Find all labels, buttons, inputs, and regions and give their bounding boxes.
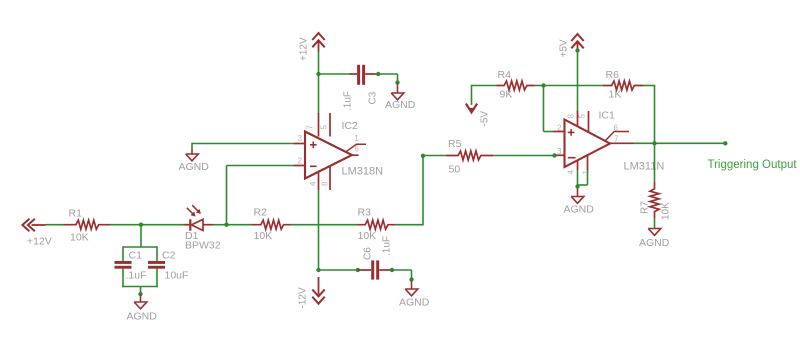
svg-text:IC2: IC2 xyxy=(342,120,359,132)
pin 2 (IC1) xyxy=(557,124,562,133)
svg-text:8: 8 xyxy=(321,181,330,186)
svg-text:5: 5 xyxy=(578,114,587,119)
value BPW32 (D1) xyxy=(185,240,221,252)
label C6 xyxy=(363,247,374,260)
ground AGND (IC2 +in) xyxy=(186,150,199,161)
svg-text:Triggering Output: Triggering Output xyxy=(708,159,798,171)
value 9K (R4) xyxy=(500,89,513,101)
wire xyxy=(634,142,725,144)
wire xyxy=(392,270,412,280)
pin 8 (IC1) xyxy=(567,114,576,119)
svg-text:2: 2 xyxy=(298,157,303,166)
svg-text:10uF: 10uF xyxy=(165,270,189,282)
wire xyxy=(577,51,579,112)
value 10K (R2) xyxy=(254,230,273,242)
svg-text:AGND: AGND xyxy=(127,311,158,323)
resistor R3 xyxy=(358,220,396,229)
value LM311N (IC1) xyxy=(624,161,665,173)
label AGND xyxy=(385,99,416,111)
pin 7 (IC1) xyxy=(614,135,619,144)
value .1uF (C6) xyxy=(382,236,393,256)
wire xyxy=(213,224,227,226)
junction node A xyxy=(139,223,143,227)
svg-text:R3: R3 xyxy=(358,207,372,219)
svg-text:LM318N: LM318N xyxy=(342,166,384,178)
capacitor C3 xyxy=(349,65,377,85)
resistor R4 xyxy=(497,81,535,90)
svg-text:1: 1 xyxy=(582,170,591,175)
ground AGND (IC1) xyxy=(571,189,584,204)
junction node B xyxy=(224,223,228,227)
wire xyxy=(423,155,446,157)
svg-text:8: 8 xyxy=(567,114,576,119)
port +12V input xyxy=(22,219,45,231)
capacitor C2 xyxy=(148,261,165,269)
svg-text:3: 3 xyxy=(557,147,562,156)
value LM318N (IC2) xyxy=(342,166,384,178)
wire xyxy=(319,269,358,271)
pin 1 (IC2) xyxy=(354,134,359,143)
svg-text:10K: 10K xyxy=(358,230,377,242)
label AGND xyxy=(179,161,210,173)
svg-text:IC1: IC1 xyxy=(599,110,616,122)
wire xyxy=(291,224,358,226)
label C2 xyxy=(162,250,176,262)
wire xyxy=(654,218,656,229)
wire xyxy=(396,156,423,226)
svg-text:R2: R2 xyxy=(254,207,268,219)
pin 3 (IC1) xyxy=(557,147,562,156)
op-amp IC2 LM318N xyxy=(294,113,367,190)
ground AGND (R7) xyxy=(648,229,661,236)
junction node C xyxy=(316,268,320,272)
node Triggering Output endpoint xyxy=(723,141,727,145)
pin 8 (IC2) xyxy=(321,181,330,186)
wire xyxy=(643,85,655,144)
pin 5 (IC2) xyxy=(320,125,329,130)
svg-text:6: 6 xyxy=(355,145,360,154)
supply +12V xyxy=(312,33,324,52)
svg-text:C3: C3 xyxy=(368,91,379,104)
svg-text:1: 1 xyxy=(354,134,359,143)
wire xyxy=(318,51,320,114)
svg-text:C1: C1 xyxy=(129,250,143,262)
value 50 (R5) xyxy=(449,164,461,176)
svg-text:7: 7 xyxy=(614,135,619,144)
svg-text:R6: R6 xyxy=(606,69,620,81)
supply -12V xyxy=(312,277,324,304)
label D1 xyxy=(185,230,199,242)
wire xyxy=(654,143,656,182)
svg-text:R5: R5 xyxy=(448,138,462,150)
svg-text:+12V: +12V xyxy=(299,37,310,61)
value 1K (R6) xyxy=(609,89,622,101)
label AGND xyxy=(639,237,670,249)
wire xyxy=(123,246,157,261)
pin 2 (IC2) xyxy=(298,157,303,166)
junction xyxy=(575,48,579,52)
junction node D xyxy=(541,83,545,87)
wire xyxy=(140,225,142,247)
wire xyxy=(318,190,320,270)
resistor R5 xyxy=(446,151,493,160)
svg-text:AGND: AGND xyxy=(564,204,595,216)
svg-text:5: 5 xyxy=(320,125,329,130)
label IC2 xyxy=(342,120,359,132)
svg-text:50: 50 xyxy=(449,164,461,176)
wire xyxy=(319,73,349,75)
wire xyxy=(544,86,554,132)
svg-text:AGND: AGND xyxy=(399,297,430,309)
wire xyxy=(192,143,294,150)
pin 4 (IC1) xyxy=(567,170,576,175)
label R4 xyxy=(498,69,512,81)
diode D1 (photodiode) xyxy=(184,205,214,231)
svg-text:R7: R7 xyxy=(640,201,651,214)
wire xyxy=(46,224,64,226)
wire xyxy=(122,269,158,295)
label IC1 xyxy=(599,110,616,122)
svg-text:4: 4 xyxy=(309,181,318,186)
pin 4 (IC2) xyxy=(309,181,318,186)
label AGND xyxy=(127,311,158,323)
svg-text:BPW32: BPW32 xyxy=(185,240,221,252)
junction xyxy=(376,72,380,76)
svg-text:10K: 10K xyxy=(70,232,89,244)
capacitor C6 xyxy=(358,260,391,279)
resistor R1 xyxy=(64,220,111,229)
label R7 xyxy=(640,201,651,214)
junction node E xyxy=(421,154,425,158)
svg-text:3: 3 xyxy=(298,134,303,143)
ground AGND (C3) xyxy=(391,84,404,100)
value .1uF (C1) xyxy=(126,270,147,282)
svg-text:1K: 1K xyxy=(609,89,622,101)
label +12V (input port) xyxy=(27,236,52,248)
svg-text:.1uF: .1uF xyxy=(382,236,393,256)
junction xyxy=(409,277,413,281)
svg-text:7: 7 xyxy=(306,125,315,130)
label R5 xyxy=(448,138,462,150)
label R3 xyxy=(358,207,372,219)
pin 3 (IC2) xyxy=(298,134,303,143)
wire xyxy=(577,170,588,189)
svg-text:+5V: +5V xyxy=(559,39,570,57)
supply -5V xyxy=(466,104,477,113)
wire xyxy=(472,85,497,105)
label -12V xyxy=(298,287,309,308)
svg-text:C2: C2 xyxy=(162,250,176,262)
label C3 xyxy=(368,91,379,104)
junction node F xyxy=(652,141,656,145)
wire xyxy=(227,224,252,226)
wire xyxy=(227,166,294,225)
junction xyxy=(390,268,394,272)
svg-text:10K: 10K xyxy=(661,202,672,220)
svg-text:.1uF: .1uF xyxy=(126,270,147,282)
value 10K (R3) xyxy=(358,230,377,242)
label R1 xyxy=(69,208,83,220)
value 10uF (C2) xyxy=(165,270,189,282)
comparator IC1 LM311N xyxy=(554,111,635,170)
label -5V xyxy=(480,111,491,127)
svg-text:AGND: AGND xyxy=(179,161,210,173)
svg-text:R4: R4 xyxy=(498,69,512,81)
resistor R7 xyxy=(650,182,659,218)
resistor R2 xyxy=(252,220,292,229)
svg-text:10K: 10K xyxy=(254,230,273,242)
label Triggering Output xyxy=(708,159,798,171)
junction xyxy=(356,268,360,272)
pin 5 (IC1) xyxy=(578,114,587,119)
svg-text:-12V: -12V xyxy=(298,287,309,308)
pin 6 (IC2) xyxy=(355,145,360,154)
svg-text:4: 4 xyxy=(567,170,576,175)
ground AGND (C1 C2) xyxy=(134,295,147,309)
wire xyxy=(535,85,544,87)
pin 7 (IC2) xyxy=(306,125,315,130)
wire xyxy=(110,224,141,226)
supply +5V xyxy=(571,34,583,51)
svg-text:R1: R1 xyxy=(69,208,83,220)
svg-text:-5V: -5V xyxy=(480,111,491,127)
svg-text:C6: C6 xyxy=(363,247,374,260)
label +5V xyxy=(559,39,570,57)
wire xyxy=(493,155,556,157)
resistor R6 xyxy=(603,81,643,90)
label AGND xyxy=(564,204,595,216)
svg-text:9K: 9K xyxy=(500,89,513,101)
svg-text:AGND: AGND xyxy=(639,237,670,249)
ground AGND (C6) xyxy=(405,281,418,296)
capacitor C1 xyxy=(115,261,132,269)
junction xyxy=(316,72,320,76)
svg-text:.1uF: .1uF xyxy=(343,91,354,111)
value 10K (R7) xyxy=(661,202,672,220)
junction xyxy=(552,153,556,157)
label R6 xyxy=(606,69,620,81)
junction xyxy=(575,184,579,188)
value 10K (R1) xyxy=(70,232,89,244)
wire xyxy=(141,224,184,226)
junction xyxy=(138,292,142,296)
label C1 xyxy=(129,250,143,262)
svg-text:6: 6 xyxy=(614,124,619,133)
svg-text:+12V: +12V xyxy=(27,236,52,248)
pin 1 (IC1) xyxy=(582,170,591,175)
value .1uF (C3) xyxy=(343,91,354,111)
svg-text:2: 2 xyxy=(557,124,562,133)
wire xyxy=(378,74,397,83)
svg-text:AGND: AGND xyxy=(385,99,416,111)
pin 6 (IC1) xyxy=(614,124,619,133)
label +12V xyxy=(299,37,310,61)
label R2 xyxy=(254,207,268,219)
wire xyxy=(544,85,604,87)
label AGND xyxy=(399,297,430,309)
junction xyxy=(395,80,399,84)
svg-text:LM311N: LM311N xyxy=(624,161,665,173)
